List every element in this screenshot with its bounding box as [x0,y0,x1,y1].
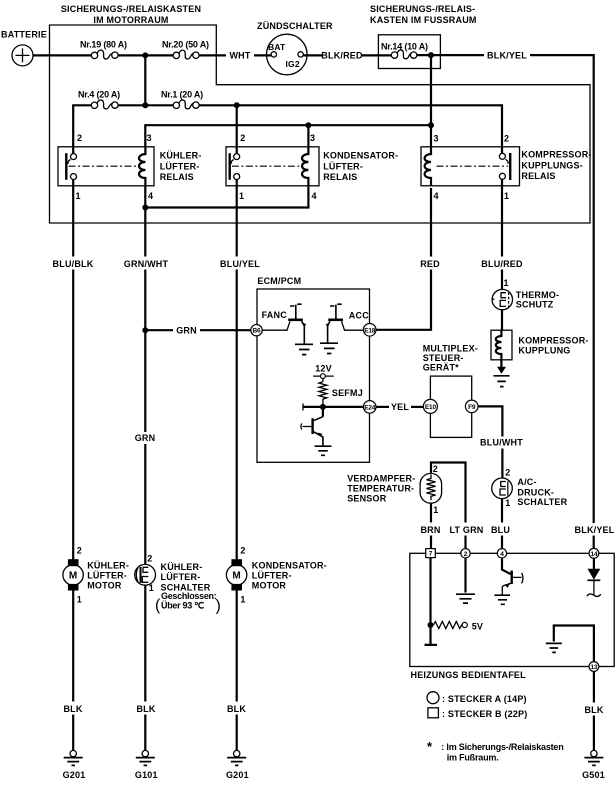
wire BLU to heater panel pin4 [501,536,503,549]
node junction row2 [142,102,148,108]
svg-text:SCHUTZ: SCHUTZ [516,300,554,310]
svg-text:3: 3 [310,133,315,143]
wire BLU/BLK to fan motor [72,270,74,560]
svg-text:7: 7 [429,551,433,558]
svg-text:BAT: BAT [268,42,286,52]
svg-text:(: ( [155,597,161,614]
node coil return junction [142,205,148,211]
wire WHT to ignition BAT [254,54,271,56]
node coil feed relay K2 pin3 [305,122,311,128]
svg-text:LÜFTER-: LÜFTER- [160,161,200,171]
wire BLK to G501 [593,716,595,751]
wire switch to BLK [144,585,146,701]
svg-text:TEMPERATUR-: TEMPERATUR- [347,484,414,494]
svg-text:2: 2 [77,133,82,143]
relay K2 KONDENSATOR-LUEFTER-RELAIS [226,133,398,201]
svg-text:KOMPRESSOR-: KOMPRESSOR- [518,336,588,346]
fuse Nr.4 (20 A) row [78,90,120,109]
wire fuse20 to box edge [199,54,226,56]
svg-text:: STECKER B (22P): : STECKER B (22P) [442,709,527,719]
relay K3 KOMPRESSOR-KUPPLUNGS-RELAIS [421,134,592,202]
wire LT GRN to heater panel pin2 [464,536,466,549]
node junction bus/relay feed [142,52,148,58]
wire sensor pin2 to LT GRN [431,463,466,523]
svg-text:4: 4 [500,551,504,558]
svg-text:LÜFTER-: LÜFTER- [323,161,363,171]
svg-text:13: 13 [590,664,597,671]
svg-text:G201: G201 [226,770,249,780]
condenser fan motor KONDENSATOR-LUEFTER-MOTOR [226,545,326,604]
svg-text:KOMPRESSOR-: KOMPRESSOR- [521,150,591,160]
label SICHERUNGS-/RELAIS-KASTEN IM FUSSRAUM [370,4,477,25]
connector E24 [363,401,376,414]
connector pin 2 [461,549,470,558]
wire relay K2 pin1 down BLU/YEL [236,188,238,257]
svg-text:THERMO-: THERMO- [516,290,559,300]
wire motor2 to BLK [236,591,238,702]
wire clutch to ground [500,360,502,367]
ground FANC emitter [295,344,313,354]
svg-text:BLU/WHT: BLU/WHT [480,438,523,448]
wire fuse1 to relay K3 pin2 [199,105,502,147]
svg-text:2: 2 [504,134,509,144]
svg-text:WHT: WHT [229,51,250,61]
thermal protector THERMOSCHUTZ [492,278,559,310]
wire BLK to G201 right [236,715,238,751]
svg-text:3: 3 [434,134,439,144]
svg-text:LT GRN: LT GRN [449,525,483,535]
wire RED to ECM E18 [376,270,431,330]
svg-text:2: 2 [505,467,510,477]
svg-text:2: 2 [240,133,245,143]
svg-text:KUPPLUNG: KUPPLUNG [518,346,570,356]
svg-text:im Fußraum.: im Fußraum. [447,753,499,763]
svg-text:B6: B6 [253,328,261,335]
svg-text:BRN: BRN [420,525,440,535]
ignition switch ZUENDSCHALTER [257,21,333,75]
ground ECM transistor [315,446,332,455]
svg-text:1: 1 [505,498,510,508]
wire E24 to YEL [376,406,389,408]
svg-text:GRN/WHT: GRN/WHT [124,259,169,269]
fuse Nr.19 (80 A) [80,40,127,60]
evaporator temperature sensor VERDAMPFER-TEMPERATUR-SENSOR [347,464,441,515]
label MULTIPLEX-STEUER-GERAET* [423,344,478,373]
svg-text:Über 93 ℃: Über 93 ℃ [161,601,204,611]
svg-text:5V: 5V [472,622,483,632]
wire coil feed line relays pin3 [145,125,431,147]
svg-text:BLK: BLK [584,705,603,715]
svg-text:1: 1 [76,191,81,201]
wire fuse14 down to coil feed [430,55,432,125]
wire fuse19 to junction to fuse20 [118,54,173,56]
fuse Nr.20 (50 A) [162,40,209,60]
svg-text:12V: 12V [315,363,332,373]
svg-text:GRN: GRN [176,325,197,335]
wire pressure switch pin1 BLU [501,499,503,523]
svg-text:A/C-: A/C- [517,477,536,487]
node SEFMJ junction [320,404,326,410]
multiplex control unit box [430,376,471,437]
svg-text:ACC: ACC [349,311,369,321]
legend footnote asterisk [427,739,564,763]
svg-text:G201: G201 [63,770,86,780]
transistor heater panel [502,558,523,595]
wire relay K3 pin1 down BLU/RED [501,188,503,257]
svg-text:: Im Sicherungs-/Relaiskasten: : Im Sicherungs-/Relaiskasten [441,742,563,752]
node junction GRN to B6 [142,327,148,333]
svg-text:IG2: IG2 [286,59,300,69]
svg-text:Geschlossen:: Geschlossen: [161,591,217,601]
wire YEL to E10 [411,406,423,408]
transistor FANC [262,304,307,344]
svg-text:Nr.4 (20 A): Nr.4 (20 A) [78,90,120,100]
svg-text:BLK/YEL: BLK/YEL [575,525,615,535]
ground ACC emitter [320,343,338,353]
ground G101 [135,750,158,779]
wire F9 to BLU/WHT [478,406,502,436]
svg-text:MOTOR: MOTOR [252,581,287,591]
svg-text:SICHERUNGS-/RELAISKASTEN: SICHERUNGS-/RELAISKASTEN [61,4,201,14]
svg-text:KONDENSATOR-: KONDENSATOR- [252,561,327,571]
ECM/PCM box [257,289,370,462]
wire BLK/RED to fuse box [362,54,391,56]
wire battery to fuse Nr.19 [33,54,91,56]
svg-text:HEIZUNGS BEDIENTAFEL: HEIZUNGS BEDIENTAFEL [411,670,527,680]
wire GRN to fan switch [144,444,146,565]
connector F9 [465,400,478,413]
svg-text:KUPPLUNGS-: KUPPLUNGS- [521,160,583,170]
svg-text:E24: E24 [364,404,376,411]
legend connector A [427,692,527,704]
transistor ACC [326,304,370,343]
svg-text:1: 1 [149,583,154,593]
wire BLK to G101 [144,715,146,751]
wire BLU/YEL to condenser motor [236,270,238,560]
wire pin7 sensor input line [425,558,438,645]
svg-text:LÜFTER-: LÜFTER- [252,571,292,581]
svg-text:Nr.14 (10 A): Nr.14 (10 A) [381,41,428,51]
fuse/relay box footwell outline [378,35,440,69]
svg-text:BATTERIE: BATTERIE [1,30,47,40]
svg-text:STEUER-: STEUER- [423,353,464,363]
svg-text:2: 2 [147,554,152,564]
connector B6 [251,325,262,336]
svg-text:2: 2 [433,464,438,474]
svg-text:RED: RED [420,259,440,269]
wire BLU/RED to thermal protector [501,270,503,290]
wire relay K1 pin4 down GRN/WHT [144,186,146,257]
wire pin2 to ground [464,558,466,593]
connector pin 7 square [426,549,436,558]
svg-text:1: 1 [240,594,245,604]
svg-text:M: M [69,571,78,582]
svg-text:ZÜNDSCHALTER: ZÜNDSCHALTER [257,21,333,31]
svg-text:BLK/RED: BLK/RED [321,51,363,61]
svg-text:BLU/YEL: BLU/YEL [220,259,260,269]
svg-text:1: 1 [504,278,509,288]
resistor 5V pull-up [434,622,484,632]
svg-text:BLU: BLU [491,525,510,535]
svg-text:G501: G501 [582,770,605,780]
svg-text:BLK: BLK [63,704,82,714]
svg-text:KASTEN IM FUSSRAUM: KASTEN IM FUSSRAUM [370,15,477,25]
ground G201 left [63,750,86,779]
connector pin 14 [589,548,599,558]
svg-text:2: 2 [77,545,82,555]
svg-text:KÜHLER-: KÜHLER- [160,151,202,161]
wire FANC drive node [304,407,364,417]
ground G501 [582,750,605,779]
svg-text:M: M [232,571,241,582]
svg-text:E18: E18 [364,327,376,334]
wire fuse4 left leg down to relay K1 pin2 [73,105,91,147]
svg-text:3: 3 [147,133,152,143]
wire node down to relay K2 pin3 [307,125,309,147]
compressor clutch coil KOMPRESSOR-KUPPLUNG [491,330,589,360]
wire fuse4 to junction [118,104,173,106]
connector E10 [423,399,437,413]
node coil feed relay K3 pin3 [428,122,434,128]
svg-text:14: 14 [590,551,597,558]
svg-text:1: 1 [239,191,244,201]
svg-text:4: 4 [148,191,153,201]
svg-text:BLK: BLK [136,704,155,714]
svg-text:1: 1 [433,505,438,515]
svg-text:BLK: BLK [227,704,246,714]
node fuse14 output [428,52,434,58]
wire sensor pin1 BRN [430,503,432,522]
relay K1 KUEHLER-LUEFTER-RELAIS [58,133,202,201]
node junction relay K2 pin2 [234,102,240,108]
svg-text:FANC: FANC [262,310,288,320]
svg-text:: STECKER A (14P): : STECKER A (14P) [442,694,527,704]
diode heater panel [587,558,601,596]
svg-text:2: 2 [240,545,245,555]
wire IG2 to BLK/RED [303,54,322,56]
wire relay K1 pin1 down BLU/BLK [72,188,74,257]
wire fuse14 to BLK/YEL [417,54,484,56]
svg-text:VERDAMPFER-: VERDAMPFER- [347,474,415,484]
svg-text:1: 1 [77,594,82,604]
svg-text:LÜFTER-: LÜFTER- [87,571,127,581]
svg-text:F9: F9 [468,404,476,411]
svg-text:BLK/YEL: BLK/YEL [487,51,527,61]
svg-text:BLU/RED: BLU/RED [481,259,523,269]
wire pin13 BLK [593,671,595,702]
svg-text:KÜHLER-: KÜHLER- [87,561,129,571]
fuse Nr.1 (20 A) [161,90,203,109]
heater control panel box HEIZUNGS BEDIENTAFEL [410,553,614,666]
wire relay K3 pin4 down RED [430,188,432,257]
svg-text:YEL: YEL [391,402,409,412]
wire thermo to clutch [501,310,503,330]
svg-text:DRUCK-: DRUCK- [517,488,554,498]
wire motor1 to BLK [72,591,74,702]
svg-text:G101: G101 [135,770,158,780]
svg-text:GRN: GRN [135,433,156,443]
wire junction row1 down to junction row2 [144,55,146,105]
legend connector B [428,708,528,719]
svg-text:MOTOR: MOTOR [87,581,122,591]
svg-text:SICHERUNGS-/RELAIS-: SICHERUNGS-/RELAIS- [370,4,475,14]
svg-text:Nr.19 (80 A): Nr.19 (80 A) [80,40,127,50]
radiator fan motor KUEHLER-LUEFTER-MOTOR [63,545,129,604]
transistor Q ECM low-side [301,417,323,447]
node 5V divider junction [428,622,434,628]
svg-text:LÜFTER-: LÜFTER- [161,572,201,582]
svg-text:BLU/BLK: BLU/BLK [53,259,94,269]
wire BLU/WHT to pressure switch [501,449,503,479]
svg-text:MULTIPLEX-: MULTIPLEX- [423,344,478,354]
fuse/relay box engine compartment outline [50,25,591,223]
resistor SEFMJ [319,382,363,407]
wire GRN to B6 [200,329,251,331]
svg-text:4: 4 [434,191,439,201]
wire BLK to G201 [72,715,74,751]
fuse Nr.14 (10 A) [381,41,428,58]
svg-text:IM MOTORRAUM: IM MOTORRAUM [93,15,168,25]
connector pin 4 [497,549,506,558]
wire relay K1 pin4 / K2 pin4 coil return link [145,186,308,208]
connector pin 13 [589,662,599,672]
node 12V supply [313,374,334,382]
pressure switch A/C-DRUCK-SCHALTER [492,467,568,508]
connector E18 [363,324,376,337]
svg-text:4: 4 [312,191,317,201]
svg-text:RELAIS: RELAIS [521,171,555,181]
wire junction down to relay K2 pin2 [236,105,238,147]
wire BRN to heater panel pin7 [430,536,432,549]
ground heater internal [546,626,594,662]
svg-text:SEFMJ: SEFMJ [332,388,363,398]
svg-text:): ) [216,598,221,615]
svg-text:Nr.1 (20 A): Nr.1 (20 A) [161,90,203,100]
wire BLK/YEL to heater panel pin14 [593,536,595,549]
svg-text:2: 2 [464,551,468,558]
svg-text:KONDENSATOR-: KONDENSATOR- [323,151,398,161]
battery BATTERIE [1,30,47,66]
label SICHERUNGS-/RELAISKASTEN IM MOTORRAUM [61,4,201,25]
svg-text:RELAIS: RELAIS [160,172,194,182]
ground heater transistor [494,595,510,604]
wire GRN junction to B6 [145,329,173,331]
svg-text:SCHALTER: SCHALTER [517,497,567,507]
svg-text:RELAIS: RELAIS [323,172,357,182]
radiator fan switch KUEHLER-LUEFTER-SCHALTER [135,554,221,615]
svg-text:SENSOR: SENSOR [347,494,387,504]
svg-text:1: 1 [504,191,509,201]
ground G201 right [226,750,249,779]
ground compressor clutch [494,367,510,387]
ground heater pin2 [456,594,475,603]
wire GRN/WHT to B6 junction [144,270,146,433]
wire BLK/YEL top right corner down [530,55,594,523]
svg-text:Nr.20 (50 A): Nr.20 (50 A) [162,40,209,50]
svg-text:KÜHLER-: KÜHLER- [161,562,203,572]
svg-text:E10: E10 [425,404,437,411]
svg-text:ECM/PCM: ECM/PCM [257,276,301,286]
svg-text:GERÄT*: GERÄT* [423,363,460,373]
